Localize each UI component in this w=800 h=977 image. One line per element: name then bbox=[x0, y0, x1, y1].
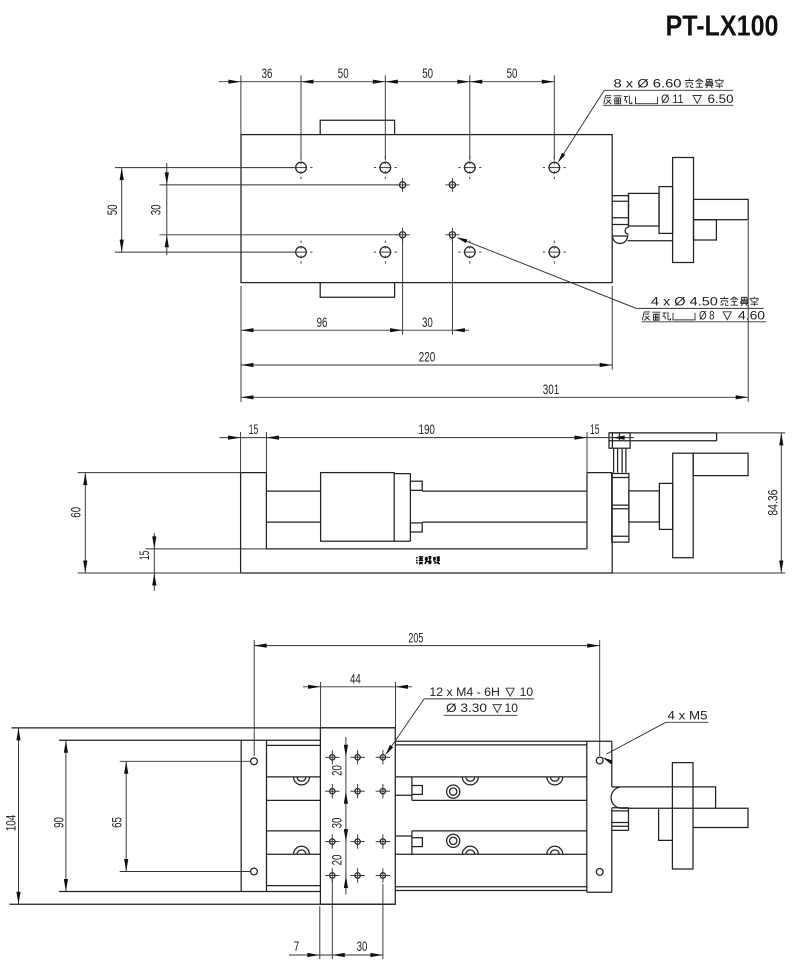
svg-text:4 x M5: 4 x M5 bbox=[668, 709, 709, 722]
dim 44 bbox=[303, 671, 412, 733]
carriage block (bottom view) bbox=[320, 728, 395, 904]
hole S2 bbox=[445, 178, 459, 192]
M4 hole r4c3 bbox=[376, 868, 390, 882]
rail end dome left-top bbox=[294, 777, 310, 785]
dim 104 bbox=[3, 728, 20, 904]
svg-text:65: 65 bbox=[110, 817, 125, 828]
callout 12xM4 (leader to hole r1c3) bbox=[385, 686, 534, 755]
svg-text:205: 205 bbox=[408, 631, 423, 646]
svg-text:30: 30 bbox=[148, 205, 163, 216]
right rail section lines bbox=[396, 740, 612, 742]
side view left wall bbox=[265, 473, 267, 549]
dim 60 (side view left) bbox=[69, 473, 241, 573]
svg-text:PT-LX100: PT-LX100 bbox=[666, 11, 779, 43]
M5 hole left-bottom bbox=[251, 868, 258, 875]
flange (side view) bbox=[659, 483, 672, 529]
svg-text:15: 15 bbox=[137, 551, 152, 561]
connector block on end plate (bottom view) bbox=[628, 808, 630, 831]
M5 hole right-bottom bbox=[596, 869, 603, 876]
hole H7 (bottom row 3) bbox=[458, 241, 481, 264]
M4 hole r4c1 bbox=[325, 868, 339, 882]
knob right bar (bottom view) bbox=[693, 808, 748, 827]
rail/bearing block bands (left) bbox=[267, 744, 321, 746]
M4 hole r2c2 bbox=[350, 784, 364, 798]
dim 96 and 30 (below top view) bbox=[241, 239, 469, 403]
hole H6 (bottom row 2) bbox=[374, 241, 397, 264]
callout 4x4.50 counterbore (leader to hole S4) bbox=[456, 237, 766, 322]
svg-text:50: 50 bbox=[105, 205, 120, 216]
rail domes right section bbox=[462, 777, 478, 785]
svg-text:4.60: 4.60 bbox=[738, 310, 766, 323]
hole S4 bbox=[445, 228, 459, 242]
dim 301 bbox=[241, 221, 748, 402]
svg-text:30: 30 bbox=[422, 315, 433, 330]
hole S3 bbox=[396, 228, 410, 242]
moving table top edge bbox=[59, 739, 321, 741]
spacer block C (top view) bbox=[659, 187, 673, 234]
M4 hole r2c3 bbox=[376, 784, 390, 798]
svg-text:4 x Ø 4.50: 4 x Ø 4.50 bbox=[651, 295, 719, 308]
callout 4xM5 (leader to right end plate hole) bbox=[602, 709, 708, 764]
dim chain 20/30/20 (vertical) bbox=[330, 737, 348, 895]
dim 15 (base plate thickness) bbox=[137, 533, 267, 591]
callout 8x6.60 counterbore (leader to hole H4) bbox=[558, 77, 734, 163]
M4 hole r3c1 bbox=[325, 834, 339, 848]
rail end dome left-bottom bbox=[294, 846, 310, 854]
M5 hole right-top bbox=[596, 757, 603, 764]
knob lower block (top view) bbox=[694, 220, 717, 240]
right end plate (bottom view) bbox=[586, 741, 588, 892]
hole S1 (4x4.50) bbox=[396, 178, 410, 192]
dim chain 36/50/50/50 (top view top) bbox=[219, 66, 554, 161]
svg-text:301: 301 bbox=[543, 382, 560, 397]
side view base bottom edge + extension lines bbox=[78, 572, 786, 574]
dim 220 bbox=[241, 286, 612, 370]
coupling housing stack (side view) bbox=[612, 474, 629, 543]
carriage tab upper (side view) bbox=[410, 481, 422, 490]
svg-text:12 x M4 - 6H: 12 x M4 - 6H bbox=[429, 686, 500, 699]
motor block B (top view) bbox=[629, 193, 660, 226]
svg-text:10: 10 bbox=[520, 686, 534, 699]
svg-text:220: 220 bbox=[419, 350, 436, 365]
svg-text:36: 36 bbox=[262, 66, 273, 81]
svg-text:10: 10 bbox=[505, 702, 519, 715]
svg-text:8 x Ø 6.60: 8 x Ø 6.60 bbox=[614, 77, 683, 90]
dim chain 15/190/15 (side view top) bbox=[220, 422, 635, 473]
dim 30 (left, small hole row spacing) bbox=[148, 163, 398, 255]
upper right bar (side view) bbox=[693, 453, 748, 475]
carriage block (side view) bbox=[321, 473, 395, 542]
motor mount standoff bbox=[613, 448, 615, 472]
svg-text:15: 15 bbox=[249, 422, 259, 437]
knob vertical bar (bottom view) bbox=[672, 763, 693, 869]
M4 hole r1c1 bbox=[325, 750, 339, 764]
hole H3 (top row 3) bbox=[458, 156, 481, 179]
hole H8 (bottom row 4) bbox=[543, 241, 566, 264]
motor stadium boss (bottom view) bbox=[611, 787, 716, 808]
coupling housing (top view) bbox=[612, 196, 629, 244]
base outer top edge + ext (bottom view) bbox=[12, 727, 396, 729]
top view upper tab (carriage edge) bbox=[320, 120, 394, 134]
handwheel disc (top view) bbox=[673, 158, 694, 263]
logo text 派迪威 bbox=[416, 557, 423, 564]
hole H2 (top row 2) bbox=[374, 156, 397, 179]
handwheel disc (side view) bbox=[673, 453, 694, 558]
lead screw lines bbox=[266, 490, 320, 492]
svg-text:20: 20 bbox=[330, 765, 345, 776]
moving table bottom edge bbox=[59, 891, 321, 893]
svg-text:Ø 8: Ø 8 bbox=[699, 310, 715, 323]
svg-text:44: 44 bbox=[350, 671, 361, 686]
shaft (side view) bbox=[629, 491, 660, 522]
top view body plate bbox=[241, 135, 612, 283]
svg-text:30: 30 bbox=[330, 818, 345, 829]
svg-text:60: 60 bbox=[69, 507, 84, 518]
base outer bottom edge + ext (bottom view) bbox=[10, 903, 396, 905]
M4 hole r1c3 bbox=[376, 750, 390, 764]
svg-text:30: 30 bbox=[357, 939, 368, 954]
carriage step and tab upper (bottom view) bbox=[396, 794, 412, 796]
hole H5 (bottom row 1) bbox=[290, 241, 313, 264]
side view base plate bbox=[240, 473, 242, 573]
svg-text:50: 50 bbox=[422, 66, 433, 81]
knob shaft bar (top view) bbox=[694, 199, 749, 219]
spacer step (bottom view) bbox=[659, 808, 673, 840]
svg-text:6.50: 6.50 bbox=[708, 93, 735, 106]
carriage step and tab lower (bottom view) bbox=[396, 835, 412, 837]
svg-text:84.36: 84.36 bbox=[766, 490, 781, 516]
M4 hole r4c2 bbox=[350, 868, 364, 882]
carriage tab lower (side view) bbox=[410, 523, 422, 532]
dim 90 bbox=[52, 740, 68, 891]
svg-text:15: 15 bbox=[590, 422, 600, 437]
svg-text:190: 190 bbox=[418, 422, 435, 437]
top view lower tab (carriage edge) bbox=[320, 283, 394, 298]
side view right wall bbox=[586, 473, 588, 549]
M4 hole r3c2 bbox=[350, 834, 364, 848]
knob base line (top view) bbox=[628, 240, 673, 242]
screw heads in grooves bbox=[447, 785, 460, 798]
M4 hole r1c2 bbox=[350, 750, 364, 764]
dim 205 bbox=[254, 631, 600, 756]
top plate bar (side view) bbox=[609, 432, 717, 434]
svg-text:104: 104 bbox=[3, 814, 18, 831]
hole H1 (8x6.60 top row 1) bbox=[290, 156, 313, 179]
svg-text:7: 7 bbox=[294, 939, 300, 954]
svg-text:20: 20 bbox=[330, 855, 345, 866]
svg-text:90: 90 bbox=[52, 817, 67, 828]
svg-text:Ø 3.30: Ø 3.30 bbox=[446, 702, 488, 715]
svg-text:50: 50 bbox=[507, 66, 518, 81]
dim 65 bbox=[110, 761, 250, 871]
dim 84.36 (side view right) bbox=[717, 433, 786, 573]
dim 7 / 30 (bottom) bbox=[289, 880, 383, 960]
svg-text:50: 50 bbox=[338, 66, 349, 81]
M4 hole r2c1 bbox=[325, 784, 339, 798]
svg-text:96: 96 bbox=[317, 315, 328, 330]
hole H4 (top row 4) bbox=[543, 156, 566, 179]
motor mount block on right wall bbox=[609, 433, 630, 448]
base left end plate strip bbox=[240, 740, 242, 891]
M4 hole r3c3 bbox=[376, 834, 390, 848]
svg-text:Ø 11: Ø 11 bbox=[661, 93, 684, 106]
M5 hole left-top bbox=[251, 758, 258, 765]
dim 50 (left, hole row spacing) bbox=[105, 168, 296, 253]
